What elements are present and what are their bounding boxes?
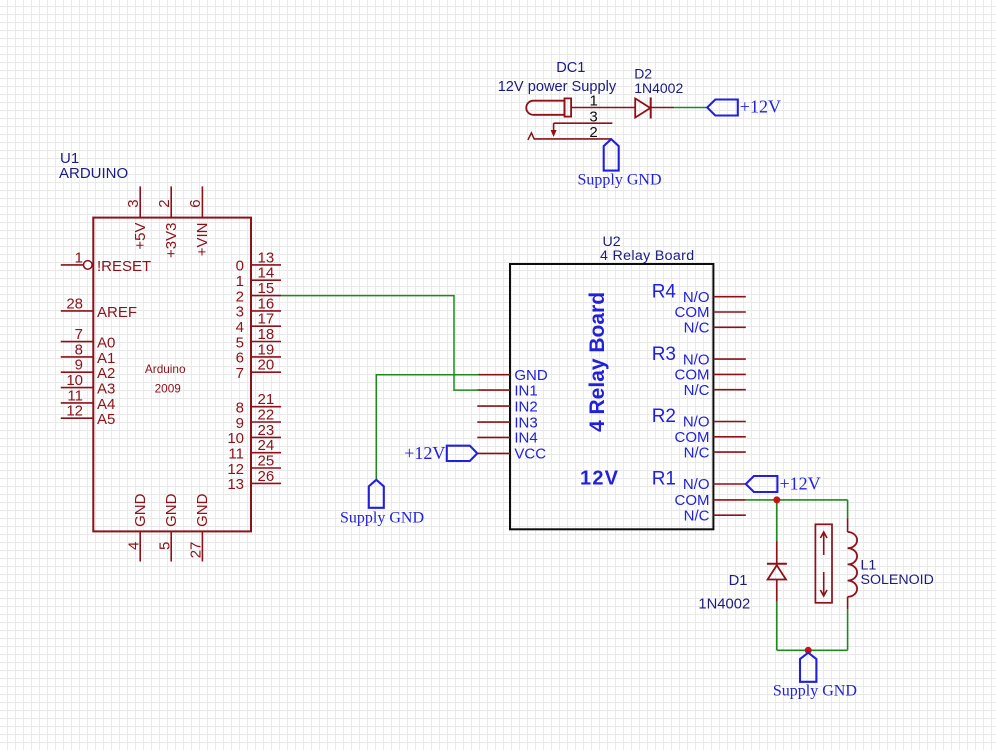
- pin R4 N/O (U2 right): [683, 289, 746, 306]
- pin R3 COM (U2 right): [675, 367, 746, 384]
- svg-text:L1: L1: [861, 558, 877, 574]
- L1 top lead: [847, 518, 849, 532]
- svg-text:26: 26: [258, 468, 275, 485]
- IC U2 4 Relay Board: [510, 264, 713, 529]
- pin 4 GND (U1 bottom): [125, 493, 149, 561]
- svg-text:12V power Supply: 12V power Supply: [498, 79, 617, 95]
- pin 26 digital 13 (U1 right): [227, 468, 281, 493]
- svg-text:Supply GND: Supply GND: [340, 509, 424, 526]
- svg-text:N/C: N/C: [684, 507, 710, 524]
- pin IN3 (U2 left): [477, 414, 537, 431]
- wire D1 to bottom: [776, 602, 778, 651]
- svg-text:13: 13: [227, 476, 244, 493]
- svg-text:+12V: +12V: [404, 443, 445, 463]
- svg-text:1N4002: 1N4002: [698, 597, 750, 613]
- svg-text:5: 5: [156, 542, 173, 550]
- pin 21 digital 8 (U1 right): [236, 391, 281, 416]
- diode D1: [767, 564, 787, 580]
- svg-text:+VIN: +VIN: [194, 223, 211, 257]
- svg-text:A5: A5: [97, 411, 115, 428]
- svg-text:3: 3: [125, 199, 142, 207]
- wire bottom horizontal: [777, 649, 848, 651]
- pin 25 digital 12 (U1 right): [227, 453, 281, 478]
- svg-text:4: 4: [125, 542, 142, 550]
- L1 actuator body: [815, 524, 832, 603]
- svg-text:D1: D1: [729, 573, 748, 589]
- pin 9 A2 (U1 left): [61, 357, 116, 383]
- wire down to L1: [847, 500, 849, 518]
- inductor L1: [848, 532, 858, 597]
- supply +12V (VCC): [404, 443, 477, 463]
- svg-text:Supply GND: Supply GND: [578, 171, 662, 188]
- svg-text:4 Relay Board: 4 Relay Board: [586, 292, 609, 432]
- svg-text:SOLENOID: SOLENOID: [861, 572, 934, 588]
- svg-text:GND: GND: [194, 493, 211, 527]
- svg-text:Supply GND: Supply GND: [773, 683, 857, 700]
- pin R3 N/C (U2 right): [684, 382, 746, 399]
- wire L1 to bottom: [847, 609, 849, 650]
- wire U1 pin15 to U2 IN1: [281, 296, 479, 391]
- junction node R1 COM: [773, 496, 780, 503]
- svg-text:N/C: N/C: [684, 382, 710, 399]
- svg-text:!RESET: !RESET: [97, 258, 151, 275]
- svg-text:1: 1: [75, 249, 83, 266]
- svg-text:GND: GND: [132, 493, 149, 527]
- pin 10 A3 (U1 left): [61, 372, 116, 398]
- D1 anode lead: [776, 541, 778, 564]
- svg-text:R3: R3: [652, 344, 676, 365]
- DC1 pin 2: [534, 124, 611, 141]
- svg-text:+12V: +12V: [740, 96, 781, 116]
- pin VCC (U2 left): [477, 446, 546, 463]
- pin 23 digital 10 (U1 right): [227, 422, 281, 447]
- supply +12V (top): [707, 96, 781, 116]
- pin 5 GND (U1 bottom): [156, 493, 180, 561]
- svg-text:27: 27: [188, 542, 205, 559]
- pin GND (U2 left): [477, 367, 548, 384]
- svg-text:7: 7: [236, 365, 244, 382]
- connector DC1 barrel jack: [526, 98, 571, 116]
- pin 7 A0 (U1 left): [61, 326, 116, 352]
- svg-text:+3V3: +3V3: [163, 223, 180, 258]
- pin 12 A5 (U1 left): [61, 403, 116, 429]
- svg-text:4 Relay Board: 4 Relay Board: [600, 248, 694, 264]
- svg-text:DC1: DC1: [556, 60, 585, 76]
- pin 24 digital 11 (U1 right): [228, 437, 281, 462]
- pin 27 GND (U1 bottom): [188, 493, 212, 561]
- wire R1 COM horizontal: [746, 499, 848, 501]
- pin 15 digital 2 (U1 right): [236, 280, 281, 305]
- svg-text:IN1: IN1: [514, 382, 537, 399]
- DC1 switch contact: [528, 133, 535, 140]
- supply GND flag (U2 GND): [340, 480, 424, 527]
- supply GND flag (DC1): [578, 139, 662, 188]
- junction node bottom GND: [805, 647, 812, 654]
- svg-text:R2: R2: [652, 406, 676, 427]
- pin 2 +3V3 (U1 top): [156, 186, 180, 258]
- wire U2 GND to Supply GND: [376, 375, 478, 480]
- svg-text:IN2: IN2: [514, 398, 537, 415]
- pin 18 digital 5 (U1 right): [236, 326, 281, 351]
- pin 19 digital 6 (U1 right): [236, 341, 281, 366]
- svg-text:N/O: N/O: [683, 476, 710, 493]
- DC1 pin 1: [571, 93, 635, 110]
- pin 20 digital 7 (U1 right): [236, 357, 281, 382]
- svg-text:3: 3: [589, 108, 597, 125]
- L1 bottom lead: [847, 597, 849, 610]
- pin 17 digital 4 (U1 right): [236, 311, 281, 336]
- svg-text:+12V: +12V: [780, 474, 821, 494]
- pin R3 N/O (U2 right): [683, 351, 746, 368]
- svg-text:2009: 2009: [155, 381, 181, 395]
- pin 28 AREF (U1 left): [61, 295, 137, 321]
- svg-text:28: 28: [66, 295, 83, 312]
- pin R1 COM (U2 right): [675, 492, 746, 509]
- svg-text:1N4002: 1N4002: [634, 80, 683, 96]
- svg-text:2: 2: [589, 124, 597, 141]
- svg-text:VCC: VCC: [514, 446, 546, 463]
- D1 cathode lead: [776, 580, 778, 602]
- pin IN4 (U2 left): [477, 430, 537, 447]
- svg-text:AREF: AREF: [97, 304, 137, 321]
- svg-text:Arduino: Arduino: [145, 362, 186, 376]
- pin R4 COM (U2 right): [675, 304, 746, 321]
- svg-text:ARDUINO: ARDUINO: [59, 165, 128, 182]
- wire D2 to +12V: [674, 107, 707, 109]
- svg-text:6: 6: [187, 199, 204, 207]
- svg-text:R1: R1: [652, 469, 676, 490]
- pin 1 !RESET (U1 left): [61, 249, 151, 275]
- pin 11 A4 (U1 left): [61, 387, 116, 413]
- pin 3 +5V (U1 top): [125, 186, 149, 249]
- svg-text:R4: R4: [652, 281, 677, 302]
- wire down to D1: [776, 500, 778, 541]
- supply GND flag (bottom): [773, 653, 857, 700]
- svg-text:20: 20: [258, 357, 275, 374]
- pin 13 digital 0 (U1 right): [236, 249, 281, 274]
- pin IN1 (U2 left): [477, 382, 537, 399]
- pin R2 COM (U2 right): [675, 429, 746, 446]
- pin R1 N/O (U2 right): [683, 476, 746, 493]
- pin 8 A1 (U1 left): [61, 341, 116, 367]
- svg-text:2: 2: [156, 199, 173, 207]
- diode D2: [635, 97, 674, 118]
- pin 14 digital 1 (U1 right): [236, 265, 281, 290]
- svg-text:GND: GND: [163, 493, 180, 527]
- supply +12V (R1 N/O): [746, 474, 821, 494]
- pin R2 N/C (U2 right): [684, 444, 746, 461]
- svg-text:N/C: N/C: [684, 444, 710, 461]
- pin 22 digital 9 (U1 right): [236, 407, 281, 432]
- pin 16 digital 3 (U1 right): [236, 295, 281, 320]
- pin R2 N/O (U2 right): [683, 414, 746, 431]
- svg-text:IN4: IN4: [514, 430, 537, 447]
- IC U1 ARDUINO: [93, 218, 251, 532]
- svg-text:N/C: N/C: [684, 320, 710, 337]
- DC1 pin 3: [554, 108, 613, 125]
- svg-text:12V: 12V: [580, 467, 619, 489]
- svg-text:+5V: +5V: [132, 223, 149, 250]
- pin IN2 (U2 left): [477, 398, 537, 415]
- pin R1 N/C (U2 right): [684, 507, 746, 524]
- svg-text:1: 1: [590, 93, 598, 110]
- pin 6 +VIN (U1 top): [187, 186, 211, 256]
- DC1 switch arrow: [551, 123, 557, 137]
- svg-text:12: 12: [66, 403, 83, 420]
- pin R4 N/C (U2 right): [684, 320, 746, 337]
